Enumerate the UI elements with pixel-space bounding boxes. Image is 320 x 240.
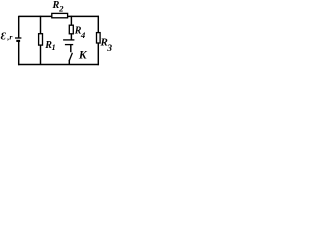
battery long plate xyxy=(15,37,21,39)
wire left branch upper (top wire to battery) xyxy=(18,16,20,38)
svg-text:K: K xyxy=(78,50,88,62)
wire R1 branch lower xyxy=(40,45,42,64)
switch K blade (open) xyxy=(69,53,72,61)
wire right branch upper xyxy=(97,16,99,33)
resistor R2 xyxy=(52,13,68,17)
wire left branch lower (battery to bottom wire) xyxy=(18,41,20,65)
capacitor top plate xyxy=(63,39,74,41)
resistor R4 xyxy=(69,25,73,34)
svg-text:,r: ,r xyxy=(6,32,13,41)
wire capacitor to switch contact xyxy=(70,45,72,53)
wire R1 branch upper xyxy=(40,16,42,34)
wire R4 box to capacitor xyxy=(70,34,72,40)
resistor R3 xyxy=(97,33,101,43)
resistor R1 xyxy=(39,34,43,45)
capacitor bottom plate xyxy=(65,44,73,46)
wire top right segment (R2 to right corner) xyxy=(68,15,99,17)
svg-text:Ɛ: Ɛ xyxy=(1,32,7,43)
battery short plate xyxy=(16,40,20,42)
wire right branch lower xyxy=(97,43,99,65)
switch K bottom stub xyxy=(68,60,70,65)
wire top left segment (battery to R2) xyxy=(19,15,52,17)
wire R4 branch upper xyxy=(70,16,72,25)
bottom wire xyxy=(18,64,99,66)
